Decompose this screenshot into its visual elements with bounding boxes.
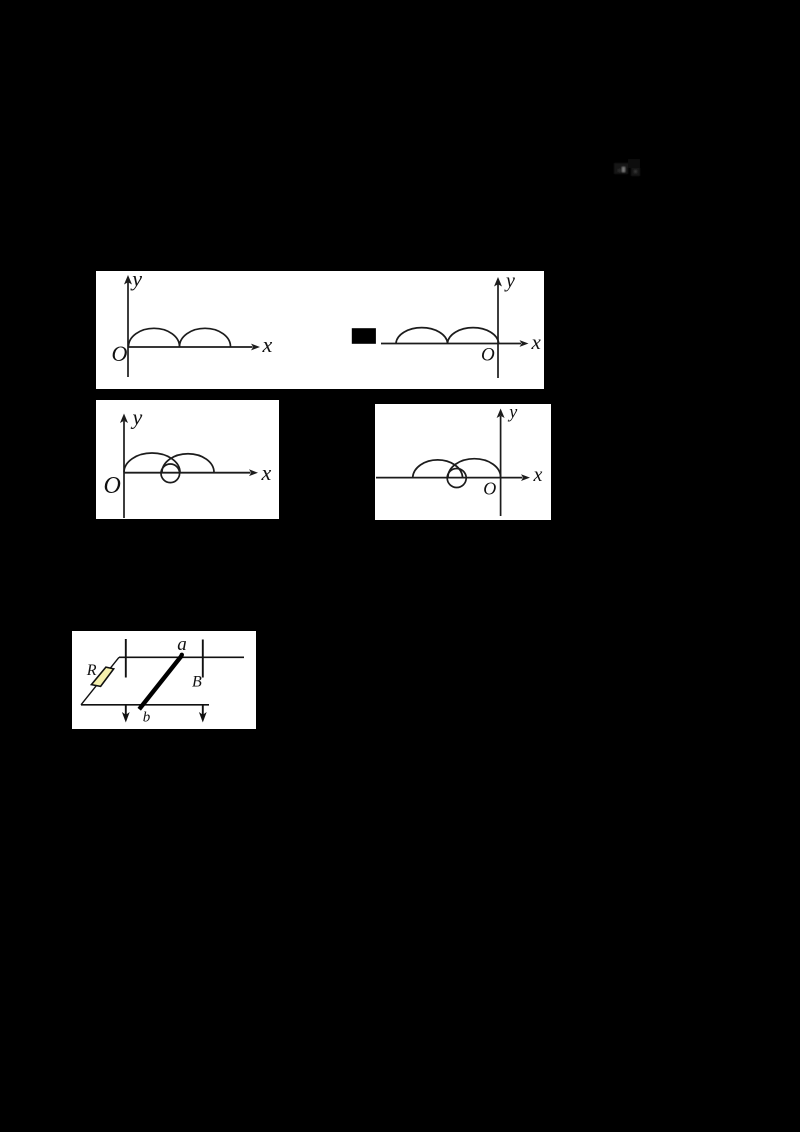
circuit top rail bbox=[119, 656, 244, 658]
graph B hump 2 bbox=[448, 328, 499, 343]
circuit bottom rail bbox=[81, 704, 209, 706]
circuit field line right bbox=[202, 640, 204, 678]
panel AB background bbox=[96, 271, 544, 389]
graph A hump 1 bbox=[129, 328, 180, 346]
down arrow right head bbox=[199, 712, 207, 723]
graph D x-axis arrowhead bbox=[521, 474, 530, 481]
panel C background bbox=[96, 400, 279, 519]
graph C hump 1 bbox=[124, 453, 180, 472]
svg-text:x: x bbox=[261, 460, 272, 485]
svg-text:y: y bbox=[504, 270, 515, 292]
down arrow right shaft bbox=[202, 705, 204, 718]
graph B x-axis arrowhead bbox=[520, 340, 529, 347]
graph D hump 1 bbox=[413, 460, 463, 477]
graph A x-axis arrowhead bbox=[251, 344, 260, 351]
graph C loop bbox=[161, 464, 180, 483]
svg-text:y: y bbox=[130, 266, 142, 291]
svg-text:O: O bbox=[483, 479, 496, 499]
graph C x-axis arrowhead bbox=[249, 469, 258, 476]
graph A y-axis bbox=[127, 281, 129, 377]
graph B y-axis bbox=[497, 283, 499, 378]
rod end dot a bbox=[180, 653, 184, 657]
svg-text:R: R bbox=[86, 662, 97, 679]
graph D y-axis arrowhead bbox=[497, 409, 505, 419]
svg-text:O: O bbox=[112, 341, 128, 366]
graph A hump 2 bbox=[180, 328, 231, 346]
svg-text:b: b bbox=[143, 710, 151, 726]
svg-text:x: x bbox=[531, 330, 542, 354]
graph B hump 1 bbox=[396, 328, 448, 343]
circuit left slant wire bbox=[81, 657, 119, 705]
graph C y-axis arrowhead bbox=[120, 414, 128, 424]
svg-text:O: O bbox=[481, 344, 495, 365]
graph D loop bbox=[447, 469, 466, 488]
rod ab bbox=[139, 655, 182, 709]
svg-text:y: y bbox=[131, 405, 143, 430]
svg-text:B: B bbox=[192, 674, 202, 691]
panel circuit background bbox=[72, 631, 256, 729]
graph D x-axis bbox=[376, 477, 523, 479]
svg-text:a: a bbox=[177, 634, 187, 655]
svg-text:x: x bbox=[262, 332, 273, 357]
resistor R body bbox=[91, 667, 113, 686]
graph C y-axis bbox=[123, 421, 125, 518]
svg-text:O: O bbox=[104, 473, 121, 499]
graph C hump 2 bbox=[162, 454, 214, 473]
graph B y-axis arrowhead bbox=[494, 277, 502, 287]
down arrow left shaft bbox=[125, 705, 127, 718]
down arrow left head bbox=[122, 712, 130, 723]
panel D background bbox=[375, 404, 551, 520]
graph D hump 2 bbox=[448, 459, 501, 478]
svg-text:x: x bbox=[533, 464, 543, 486]
graph A y-axis arrowhead bbox=[124, 275, 132, 285]
graph A x-axis bbox=[128, 346, 253, 348]
graph C x-axis bbox=[124, 472, 251, 474]
circuit field line left bbox=[125, 639, 127, 678]
faint watermark mark bbox=[614, 159, 640, 176]
svg-text:y: y bbox=[507, 402, 517, 422]
graph B marker box bbox=[352, 328, 376, 344]
graph D y-axis bbox=[500, 416, 502, 516]
graph B x-axis bbox=[381, 343, 521, 345]
